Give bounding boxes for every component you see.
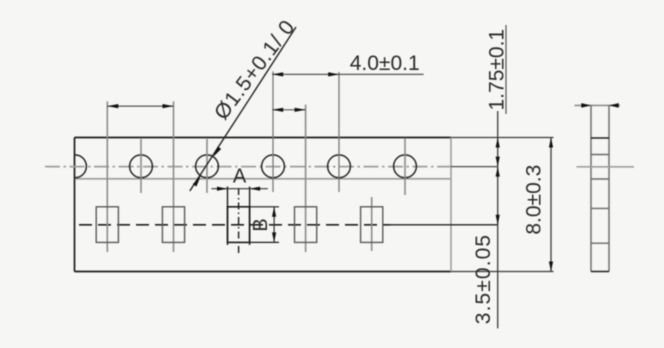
tape top edge — [75, 137, 452, 139]
hole 5 vertical centerline / 4.0 dim extension — [338, 72, 340, 192]
side view hole bottom line — [591, 178, 609, 180]
svg-text:B: B — [250, 218, 272, 231]
1.75 bottom arrow — [496, 157, 500, 167]
pocket 5 — [361, 207, 383, 243]
offset dim left arrow — [272, 108, 283, 112]
hole-pocket offset dim line — [272, 109, 305, 111]
sprocket centerline dashed — [45, 166, 451, 168]
pocket 5 vertical centerline — [371, 197, 373, 251]
sprocket hole 4 — [262, 155, 285, 178]
4.0 dim left arrow — [272, 72, 283, 76]
B dim extension bottom — [250, 241, 279, 243]
pocket centerline solid extension — [390, 224, 498, 226]
side view top bar — [575, 104, 621, 106]
sprocket hole 1 (half, on left edge) — [75, 155, 86, 178]
B dim extension top — [250, 206, 279, 208]
pocket 2 — [162, 207, 184, 243]
side view centerline — [577, 166, 635, 168]
pitch dim left arrow — [107, 104, 118, 108]
tape bottom edge — [75, 271, 452, 273]
pocket 4 — [295, 207, 317, 243]
offset dim right arrow — [295, 108, 306, 112]
side view pocket top line — [591, 207, 609, 209]
pitch dim right arrow — [163, 104, 174, 108]
sprocket hole 5 — [328, 155, 351, 178]
diameter dim upper arrow — [213, 147, 221, 157]
tape top edge extension to 8.0 dim — [451, 137, 554, 139]
tape bottom edge extension to 8.0 dim — [451, 271, 554, 273]
sprocket centerline solid extension — [451, 166, 498, 168]
side view bottom line — [591, 271, 609, 273]
pocket 2 vertical centerline / pitch dim extension — [173, 101, 175, 252]
svg-text:8.0±0.3: 8.0±0.3 — [523, 165, 546, 235]
side view right edge — [608, 105, 610, 271]
pocket 3 vertical dash-dot centerline — [238, 188, 240, 255]
A dim line — [211, 188, 267, 190]
hole 4 vertical centerline / 4.0 dim extension — [272, 71, 274, 192]
4.0 dim right arrow — [328, 72, 339, 76]
svg-text:3.5±0.05: 3.5±0.05 — [472, 234, 495, 324]
svg-text:4.0±0.1: 4.0±0.1 — [350, 52, 420, 75]
pocket 3 (dimensioned) — [228, 207, 250, 243]
tape rail line — [75, 178, 451, 180]
B dim line — [273, 207, 275, 243]
pocket 1 — [96, 207, 118, 243]
tape right cut edge — [450, 138, 452, 272]
hole diameter leader line — [190, 27, 296, 191]
sprocket hole 6 — [394, 155, 417, 178]
hole 3 vertical centerline — [206, 139, 208, 193]
side view tape top line — [591, 137, 609, 139]
pocket 1 vertical centerline / pitch dim extension — [106, 101, 108, 252]
hole 6 vertical centerline — [404, 138, 406, 195]
B dim top arrow — [272, 207, 276, 217]
side view left edge — [590, 105, 592, 271]
8.0 bottom arrow — [549, 262, 553, 272]
side view hole top line — [591, 154, 609, 156]
pocket 4 vertical centerline / offset dim extension — [305, 105, 307, 252]
8.0 dim line — [550, 138, 552, 272]
diameter dim lower arrow — [193, 176, 201, 186]
svg-text:A: A — [233, 165, 247, 187]
A dim right arrow (outside pointing left) — [250, 187, 261, 191]
side view top-left arrow — [581, 103, 591, 108]
4.0 dim line — [272, 73, 423, 75]
pocket centerline dashed — [79, 224, 390, 226]
side view pocket bottom line — [591, 242, 609, 244]
side view top-right arrow — [609, 103, 619, 108]
B dim bottom arrow — [272, 232, 276, 242]
1.75 text side line — [505, 25, 507, 114]
pitch dimension line (pockets 1-2) — [107, 105, 173, 107]
8.0 top arrow — [549, 138, 553, 148]
A dim extension left — [227, 187, 229, 246]
svg-text:1.75±0.1: 1.75±0.1 — [486, 29, 509, 111]
3.5 bottom arrow — [496, 215, 500, 225]
sprocket hole 3 — [196, 155, 219, 178]
tape left edge — [74, 138, 76, 272]
1.75/3.5 dimension line — [497, 111, 499, 328]
A dim left arrow (outside pointing right) — [217, 187, 228, 191]
1.75 top arrow — [496, 138, 500, 148]
sprocket hole 2 — [130, 155, 153, 178]
3.5 top arrow — [496, 167, 500, 177]
A dim extension right — [249, 187, 251, 246]
hole 2 vertical centerline — [140, 139, 142, 193]
